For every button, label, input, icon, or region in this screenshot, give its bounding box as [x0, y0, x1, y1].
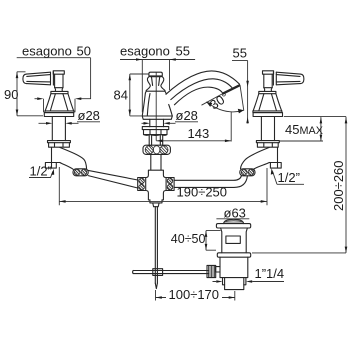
right elbow: [241, 147, 270, 169]
right handle hub: [263, 71, 274, 88]
drain body top plate: [217, 253, 250, 257]
svg-text:1/2”: 1/2”: [30, 164, 52, 179]
svg-text:esagono: esagono: [120, 44, 170, 59]
spout centerline: [155, 72, 157, 140]
spout lower tube: [151, 154, 161, 169]
dimension: 84 (spout body height): [114, 74, 149, 116]
dimension: 45MAX (deck thickness): [279, 117, 346, 141]
left bell cone: [45, 91, 74, 111]
drain top flange: [216, 224, 250, 228]
left valve assembly: [23, 71, 138, 188]
horizontal actuating rod: [133, 271, 209, 274]
dimension: 190-250 (hole spacing): [59, 167, 267, 205]
drain lower step: [223, 278, 246, 285]
spout shank: [150, 119, 164, 126]
svg-text:55: 55: [176, 44, 190, 59]
spout body cone: [142, 91, 172, 116]
spout union nut: [143, 145, 170, 154]
svg-text:190÷250: 190÷250: [177, 185, 228, 200]
right base skirt: [253, 113, 282, 117]
svg-text:143: 143: [188, 126, 210, 141]
drain tailpipe: [225, 285, 244, 290]
spout outlet aerator face: [222, 84, 240, 95]
rod clamp: [153, 269, 163, 276]
dimension: esagono 50 (left): [17, 44, 91, 113]
right lever handle: [273, 72, 304, 85]
spout finial cap: [149, 72, 162, 77]
left base ring: [45, 111, 74, 113]
spout flange disc: [142, 127, 168, 130]
drain rod joint step: [216, 267, 220, 272]
dimension: diameter 63 (waste flange): [216, 206, 249, 221]
label: 1 1/4 inch (waste thread): [213, 266, 285, 283]
left base skirt: [44, 113, 73, 117]
svg-text:40÷50: 40÷50: [171, 232, 206, 246]
spout hex nut: [144, 130, 168, 136]
spout base plate: [142, 116, 172, 119]
left locknut: [48, 141, 71, 148]
pop-up rod (vertical): [155, 207, 157, 289]
spout tube: [166, 71, 240, 105]
right shank: [261, 117, 274, 141]
svg-text:ø28: ø28: [78, 108, 100, 123]
spout finial bulge: [146, 77, 165, 92]
left elbow: [60, 147, 87, 169]
pop-up waste drain: [207, 219, 251, 289]
drain upper tube with overflow window: [221, 228, 248, 253]
svg-text:84: 84: [114, 88, 128, 103]
right handle neck: [264, 88, 272, 92]
label: 1/2 inch right: [271, 168, 304, 185]
dimension: 200-260 (installation depth): [252, 117, 347, 253]
svg-text:45: 45: [285, 122, 299, 137]
svg-text:MAX: MAX: [300, 125, 323, 137]
svg-text:55: 55: [233, 46, 247, 61]
dimension: 100-170 (rod to waste distance): [156, 287, 236, 302]
right bell cone: [253, 91, 282, 111]
tee left union nut: [138, 178, 146, 191]
right supply pipe to tee: [174, 176, 247, 188]
svg-text:esagono: esagono: [22, 44, 72, 59]
svg-text:ø28: ø28: [176, 108, 198, 123]
30 degree angle annotation: [202, 85, 244, 113]
svg-text:90: 90: [4, 87, 18, 102]
dimension: 55 (spout height above deck): [232, 46, 249, 124]
dimension: esagono 55 (center): [120, 44, 195, 113]
svg-text:200÷260: 200÷260: [331, 160, 346, 211]
left supply pipe to tee: [88, 170, 138, 188]
dimension: diameter 28 (spout shank): [142, 108, 199, 125]
right valve body: [269, 147, 281, 168]
drain body: [220, 257, 248, 277]
right locknut: [256, 141, 279, 148]
drain rod knurled nut: [207, 265, 216, 277]
left handle neck: [55, 88, 63, 92]
label: 1/2 inch left: [29, 164, 54, 179]
center tee fitting: [138, 170, 174, 207]
spout threaded tube: [149, 135, 163, 145]
left valve body: [45, 147, 59, 168]
dimension: diameter 28 (left shank): [39, 108, 101, 125]
right union nut: [240, 169, 255, 176]
dimension: 90 (left handle height): [4, 72, 43, 116]
left union nut: [73, 169, 88, 176]
center spout assembly: [142, 71, 244, 170]
svg-text:50: 50: [77, 44, 91, 59]
left lever handle: [23, 72, 54, 85]
dimension: 143 (spout reach): [156, 112, 231, 142]
svg-text:1/2”: 1/2”: [278, 170, 300, 185]
right valve assembly (mirrored): [253, 71, 304, 147]
svg-text:1”1/4: 1”1/4: [255, 266, 285, 281]
left handle hub: [53, 71, 64, 88]
tee body: [146, 170, 166, 200]
svg-text:100÷170: 100÷170: [169, 287, 220, 302]
drain plug dome: [224, 219, 244, 223]
left shank: [52, 117, 65, 141]
tee bottom fitting: [150, 200, 162, 207]
svg-text:ø63: ø63: [224, 206, 246, 221]
dimension: 40-50 (waste adjustment): [171, 231, 221, 251]
tee right union nut: [166, 178, 174, 191]
right base ring: [253, 111, 282, 113]
